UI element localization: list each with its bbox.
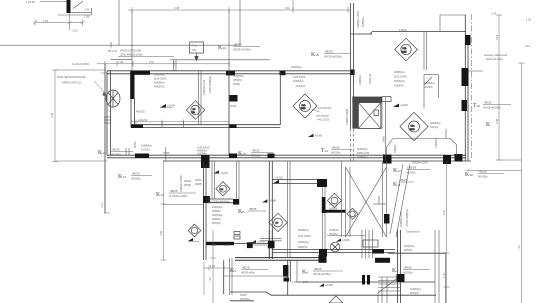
spot flag +0.60 below D3 [308, 133, 322, 137]
svg-text:4M1b: 4M1b [230, 104, 237, 108]
svg-text:(45/25+45b): (45/25+45b) [241, 271, 255, 275]
partition x=424 right block [424, 32, 439, 109]
svg-text:4M(8)4a): 4M(8)4a) [394, 79, 405, 83]
svg-text:W5(25): W5(25) [329, 232, 338, 236]
thick wall y=243 lower-left [206, 242, 234, 245]
column on stair wall [384, 214, 390, 224]
svg-text:(25b) 4M5/25 (25b): (25b) 4M5/25 (25b) [120, 53, 142, 57]
svg-text:+0.60: +0.60 [220, 171, 228, 175]
main top wall y=71-75 [107, 71, 355, 74]
door jamb x=183.5 [183, 121, 185, 128]
svg-text:2M(8)4a): 2M(8)4a) [404, 244, 415, 248]
grid diamond D6 with flag [188, 224, 201, 237]
svg-text:2M(8)4a 25/50: 2M(8)4a 25/50 [356, 11, 360, 28]
svg-text:4M(8)a: 4M(8)a [393, 144, 397, 153]
text rows bottom right block2 [410, 287, 421, 295]
svg-text:1.35 ##: 1.35 ## [26, 0, 35, 4]
svg-text:ENTLUEFTUNGSROHR: ENTLUEFTUNGSROHR [57, 75, 86, 79]
svg-text:45/25: 45/25 [234, 43, 242, 47]
svg-text:4.18: 4.18 [495, 34, 499, 40]
svg-text:1M(8)4a): 1M(8)4a) [357, 155, 368, 159]
wall extension line y=70 to left dim [55, 69, 106, 71]
vertical x=297 bottom [296, 260, 298, 282]
column right wall y=68-86 [462, 68, 469, 86]
tick line y=204.4 [164, 203, 205, 205]
svg-text:W5/25 (25/25)+B5: W5/25 (25/25)+B5 [120, 49, 142, 53]
svg-text:2M(8)4a AU3: 2M(8)4a AU3 [202, 79, 206, 95]
inset detail box border [0, 0, 240, 48]
top dimension line y=10 [128, 7, 350, 13]
inset detail: dimension line with arrows [33, 13, 85, 31]
shaft small rect top right [382, 97, 391, 102]
dim line x=163.5 lower-left [161, 161, 167, 260]
svg-text:QU5 25/50: QU5 25/50 [298, 234, 311, 238]
column y=250 x=323 [319, 249, 327, 257]
lintel text block above left wall [118, 49, 174, 57]
svg-text:2M(8)4a: 2M(8)4a [358, 75, 362, 85]
black bar on x=288 wall [283, 265, 288, 277]
svg-text:+0.60: +0.60 [257, 240, 265, 244]
svg-text:2.35: 2.35 [84, 8, 90, 12]
svg-text:4.10: 4.10 [525, 44, 531, 48]
svg-text:4M/32: 4M/32 [184, 179, 192, 183]
thick wall x=270.5 center [269, 161, 272, 259]
beam label K6 [302, 267, 343, 276]
beam label K5 [230, 266, 268, 275]
annotation Entlueftungs text with leader [57, 75, 108, 96]
svg-text:(45/25b): (45/25b) [478, 175, 488, 179]
svg-text:45/25: 45/25 [479, 170, 487, 174]
svg-text:1M(8)4a): 1M(8)4a) [424, 81, 435, 85]
svg-text:1M(8)4: 1M(8)4 [329, 207, 338, 211]
svg-text:45/25: 45/25 [332, 146, 340, 150]
extension line x=132 from dim to wall [131, 10, 133, 71]
beam label K13 [118, 172, 152, 181]
svg-text:+0.60: +0.60 [167, 104, 175, 108]
svg-text:(45/25b): (45/25b) [403, 271, 413, 275]
vertical x=289.5 upper of bottom block [288, 161, 291, 258]
door lines left of x=270 [247, 238, 282, 245]
wall y=282 bottom [297, 281, 435, 283]
svg-text:45/25: 45/25 [132, 172, 140, 176]
svg-text:2M(8)4a 25/50: 2M(8)4a 25/50 [179, 175, 183, 192]
beam label K8 [238, 207, 266, 215]
svg-text:4M(8)4a): 4M(8)4a) [293, 79, 304, 83]
column y155 x=385 [383, 155, 392, 164]
svg-text:Durchbruch: Durchbruch [319, 106, 333, 110]
svg-text:25/25: 25/25 [402, 52, 408, 54]
svg-text:2M 25/50 4M(8)4a: 2M 25/50 4M(8)4a [208, 199, 230, 203]
column on y=125 wall x=230 [230, 124, 237, 128]
window ticks on left wall [104, 117, 110, 123]
svg-text:+0.60: +0.60 [325, 283, 333, 287]
svg-text:25/50 4M(8)4a: 25/50 4M(8)4a [405, 209, 409, 226]
column at wall x=350 top [350, 70, 355, 76]
svg-text:2.38: 2.38 [84, 14, 90, 18]
column right wall y=100 [462, 100, 468, 111]
black column end of y=199 wall [233, 199, 239, 205]
room text block right block [394, 70, 407, 88]
flag under D6 [188, 238, 199, 242]
svg-text:2M(8)4a): 2M(8)4a) [154, 73, 165, 77]
jamb ticks above corridor wall [126, 147, 166, 161]
stair shaft inner square with cross [358, 103, 381, 129]
corridor wall y=155-161 [107, 155, 471, 161]
svg-text:2M(8)4a QU5: 2M(8)4a QU5 [412, 161, 428, 165]
interior wall x=229 down from top wall [228, 71, 230, 156]
vertical pair x=230 bottom [230, 258, 233, 295]
column y=250 x=378 [372, 249, 384, 254]
right dim line B x=521.5 [519, 63, 525, 303]
vertical wall x=288.5 bottom [288, 260, 291, 295]
svg-text:145/25: 145/25 [399, 28, 407, 32]
svg-text:4M(8)4a): 4M(8)4a) [430, 121, 441, 125]
svg-text:45/25: 45/25 [163, 151, 170, 155]
stair well verticals [362, 230, 373, 258]
column y155 x=270 [268, 154, 275, 159]
svg-text:7.10: 7.10 [100, 202, 104, 208]
svg-text:2.39: 2.39 [159, 230, 163, 236]
corridor wall y=138.5 right block [386, 129, 456, 156]
stair diagonal bottom [378, 276, 400, 293]
connector line y=160 right [499, 159, 522, 161]
column on x=204 wall [203, 196, 210, 203]
svg-text:4x41/32: 4x41/32 [138, 118, 148, 122]
room text mid block [291, 65, 306, 88]
wall y=243 thin part [234, 243, 270, 245]
svg-text:4M(8)4a): 4M(8)4a) [154, 81, 165, 85]
K label on right wall [486, 122, 491, 128]
stair flight diagonals right [390, 164, 410, 237]
wall y=253 right [388, 252, 446, 254]
room text block upper-left [154, 73, 167, 89]
partition pair x=174 [174, 60, 177, 71]
svg-text:W5(25): W5(25) [404, 248, 413, 252]
column right wall y=35-45 [465, 35, 471, 45]
dim line x=213 [210, 230, 216, 303]
column on x=270 wall [268, 242, 275, 249]
text rows below wall [212, 205, 223, 225]
beam label K10 far right [465, 170, 504, 179]
svg-text:QU5 25/50: QU5 25/50 [394, 75, 407, 79]
svg-text:Durchbruch: Durchbruch [406, 230, 420, 234]
stair shaft hatched left wall [352, 97, 358, 129]
vertical line x=341.5 stairs left [341, 161, 343, 237]
interior dim line y=63.8 upper-left block [97, 61, 230, 67]
svg-text:45/25: 45/25 [249, 207, 257, 211]
black corner block [247, 242, 253, 248]
circle symbol stairwell [347, 208, 358, 219]
svg-text:+0.60: +0.60 [269, 199, 277, 203]
room text block bottom-center [298, 228, 311, 249]
vertical wall x=445.5 bottom [445, 253, 447, 303]
corner column black bar vertical [130, 71, 134, 99]
svg-text:25/50 AU5: 25/50 AU5 [357, 151, 370, 155]
grid diamond D2 [400, 112, 428, 140]
grid diamond D4 [186, 101, 204, 119]
svg-text:25/25: 25/25 [301, 108, 307, 110]
svg-text:+0.60: +0.60 [315, 133, 323, 137]
svg-text:W5(25): W5(25) [212, 221, 221, 225]
svg-text:ARMOS WY5.23: ARMOS WY5.23 [62, 81, 82, 85]
spot flag +0.60 upper bottom-block [262, 199, 277, 203]
small bars x=366 bottom [362, 275, 370, 285]
column y155 x=447 [443, 155, 451, 164]
spot elevation flag +0.60 room1 [160, 104, 175, 108]
svg-text:1.36: 1.36 [210, 264, 216, 268]
interior dim line x=447 [444, 161, 450, 303]
svg-text:(45/25+45/25b): (45/25+45/25b) [483, 106, 501, 110]
svg-text:185/25: 185/25 [407, 166, 417, 170]
svg-text:1M(2)4: 1M(2)4 [430, 125, 439, 129]
dim line y=268 [204, 266, 229, 271]
svg-text:25/50 4M(8)4a: 25/50 4M(8)4a [208, 76, 212, 93]
svg-text:(45/25b): (45/25b) [131, 177, 141, 181]
interior line y=59.8 [111, 58, 271, 60]
svg-text:4M5/9b: 4M5/9b [212, 217, 221, 221]
column y155 x=232 [229, 154, 237, 159]
bottom exterior wall y=295 [230, 292, 436, 295]
column y155 x=137 [135, 154, 149, 159]
grid diamond D1 right block [395, 38, 418, 61]
svg-text:W5(25): W5(25) [424, 85, 433, 89]
svg-text:(45/25b): (45/25b) [240, 297, 250, 301]
interior wall y=199 lower-left [206, 199, 233, 203]
interior partition x=201.5 [199, 71, 202, 125]
right block setback line y=15 [440, 15, 466, 32]
column on top wall x=280 [280, 71, 286, 75]
vertical wall x=437 bottom [435, 230, 439, 303]
svg-text:25/50: 25/50 [195, 178, 202, 182]
svg-text:1M5/25 4M(8): 1M5/25 4M(8) [345, 109, 349, 125]
svg-text:45/25: 45/25 [314, 267, 322, 271]
right exterior wall x=466 [465, 15, 468, 161]
svg-text:(45/25+45/25b): (45/25+45/25b) [233, 48, 251, 52]
svg-text:4M1/32: 4M1/32 [136, 110, 145, 114]
svg-text:4M(8): 4M(8) [233, 82, 240, 86]
column on y=125 wall left [131, 124, 143, 128]
thick vertical wall x=271 upper of bottom block [269, 230, 272, 258]
svg-text:4.41: 4.41 [442, 209, 446, 215]
svg-text:Pos1: Pos1 [192, 44, 198, 48]
svg-text:7.10: 7.10 [208, 276, 212, 282]
lower strip texts of upper-left block [141, 144, 152, 152]
svg-text:+0.60: +0.60 [400, 103, 408, 107]
stair landing line [327, 235, 365, 237]
spot elevation flag +0.60 at shaft [393, 103, 408, 107]
svg-text:4M(8)7b): 4M(8)7b) [154, 85, 165, 89]
small column squares pair x=237 [234, 232, 240, 240]
grid diamond D8 [269, 213, 287, 231]
column y155 x=204 [201, 155, 210, 168]
svg-text:45/25: 45/25 [242, 266, 250, 270]
wall pair x=323 center-bottom [323, 187, 326, 254]
svg-text:W5(9): W5(9) [184, 183, 191, 187]
spot flag +0.60 center [274, 176, 283, 184]
svg-text:(45/25b): (45/25b) [406, 171, 416, 175]
second bottom line y=300.8 [230, 300, 254, 302]
svg-text:2.61: 2.61 [149, 60, 155, 64]
beam label K16 [311, 50, 350, 59]
inset detail: wall column (black bar) [67, 0, 71, 13]
black bar y=211 [324, 210, 346, 213]
dim texts bottom center [292, 280, 309, 284]
svg-text:45/25: 45/25 [133, 141, 137, 148]
spot flag +0.60 stairs bottom [336, 238, 350, 242]
svg-text:45/25: 45/25 [325, 50, 333, 54]
svg-text:1M(8)4a): 1M(8)4a) [212, 205, 223, 209]
svg-text:45/25: 45/25 [252, 149, 260, 153]
svg-text:aufsteig. Mauerwerk: aufsteig. Mauerwerk [484, 53, 508, 57]
svg-text:5.38: 5.38 [50, 112, 54, 118]
beam label K7 [392, 266, 430, 275]
svg-text:45/25: 45/25 [240, 293, 247, 297]
black fill on x=323 wall [322, 197, 326, 213]
stair rungs bottom [378, 277, 400, 303]
room text block right block 2 [424, 81, 435, 89]
thick wall left x=132 lower part [131, 99, 135, 128]
svg-text:Wand ab Erdg.: Wand ab Erdg. [486, 57, 503, 61]
spot elevation flag +0.60 lower-left [214, 170, 228, 175]
room left wall x=224 bottom [223, 260, 225, 294]
leader tick [101, 72, 107, 74]
beam label K15b mid [238, 149, 273, 158]
svg-text:(45/25b): (45/25b) [331, 151, 341, 155]
outer dim line x=55 [52, 70, 107, 161]
column on x=229 wall [230, 95, 238, 102]
svg-text:45/25: 45/25 [112, 148, 120, 152]
svg-text:7.10: 7.10 [517, 244, 521, 250]
beam label K12b right [393, 166, 430, 175]
wall tick bottom x=107 [104, 212, 110, 214]
label box with leader arrow [190, 42, 204, 61]
stair shaft hatched top wall [352, 97, 382, 103]
shaft symbol [374, 110, 379, 116]
beam label T12 [321, 146, 352, 155]
svg-text:45/25: 45/25 [404, 266, 412, 270]
svg-text:1M5b: 1M5b [382, 135, 386, 142]
grid diamond D5 [216, 182, 230, 196]
svg-text:1M(8)4a: 1M(8)4a [434, 138, 438, 148]
svg-text:+0.60: +0.60 [275, 176, 283, 180]
wall y=250 center [272, 249, 395, 252]
door jamb x=162 [161, 121, 163, 128]
beam label K11 [393, 178, 414, 188]
svg-text:AU3/25: AU3/25 [141, 148, 150, 152]
svg-text:#R 4.21: #R 4.21 [108, 49, 118, 53]
column x=399 y=278 [397, 274, 405, 282]
svg-text:(45/25+45/25b): (45/25+45/25b) [313, 272, 331, 276]
svg-text:A=0.17/25: A=0.17/25 [317, 118, 329, 122]
north circle symbol [330, 242, 340, 252]
dim line y=170.5 right [466, 170, 522, 172]
grid diamond D3 with leader [293, 94, 317, 118]
svg-text:25/25: 25/25 [410, 129, 416, 131]
svg-text:W5(25): W5(25) [233, 78, 242, 82]
svg-text:2M(8)4a): 2M(8)4a) [357, 147, 368, 151]
svg-text:45/25: 45/25 [484, 101, 492, 105]
vertical thick bar x=285.5 y=270 (door) [268, 241, 275, 248]
extension line x=293 [292, 0, 294, 10]
svg-text:4.10: 4.10 [285, 6, 291, 10]
svg-text:1M(8)4a): 1M(8)4a) [410, 287, 421, 291]
wall y=258 thick gray bottom-center [235, 258, 326, 261]
stair up arrow [373, 196, 386, 204]
dark tick x=286 y=279 [284, 278, 290, 282]
svg-text:-1.25: -1.25 [72, 29, 78, 33]
rotated texts near x=353 wall mid [358, 73, 372, 85]
beam label K12 left [156, 189, 196, 198]
texts near stairs right [404, 244, 415, 252]
stair platform rect [363, 240, 378, 247]
vertical wall pair x=399 bottom [398, 230, 401, 303]
svg-text:4M(8)4a: 4M(8)4a [361, 17, 365, 27]
svg-text:+0.60: +0.60 [342, 238, 350, 242]
svg-text:1.30: 1.30 [526, 18, 532, 22]
svg-text:1M(8)4a): 1M(8)4a) [233, 74, 244, 78]
column on y=181 wall [317, 179, 327, 187]
svg-text:4M(8): 4M(8) [195, 182, 202, 186]
top wall of right block y=32 [351, 32, 466, 35]
right dim line A x=499 [496, 15, 502, 160]
left exterior wall x=107 double [105, 64, 111, 213]
svg-text:1.30: 1.30 [118, 60, 124, 64]
svg-text:W5(25): W5(25) [329, 203, 338, 207]
svg-text:4M(8)4a): 4M(8)4a) [298, 240, 309, 244]
spot flag +0.60 bottom [319, 283, 333, 287]
small text above corridor wall [163, 146, 210, 156]
ventilation circle symbol [106, 90, 120, 107]
svg-text:1.35: 1.35 [43, 19, 49, 23]
svg-text:QU5 25/50: QU5 25/50 [154, 77, 167, 81]
column y155 x=458 [455, 154, 463, 162]
svg-text:2.48: 2.48 [495, 118, 499, 124]
label box text [192, 44, 198, 53]
svg-text:2M(8)4a: 2M(8)4a [329, 228, 339, 232]
svg-text:13/2: 13/2 [192, 48, 198, 52]
texts under shaft [357, 147, 370, 159]
dim line above y=121.8 [131, 120, 229, 125]
thick bar y=260 stairs [375, 258, 390, 263]
beam label K15 left [98, 148, 133, 157]
annotation aufsteigendes Mauerwerk [484, 53, 508, 61]
spot flag +0.60 at x=255 [251, 240, 265, 244]
wall between blocks x=350/353 [351, 3, 354, 129]
stair flight long X [346, 161, 387, 237]
svg-text:4M(2)/4: 4M(2)/4 [296, 84, 305, 88]
svg-text:2M(8)4a AU3: 2M(8)4a AU3 [399, 211, 403, 227]
wall y=181 center-left [272, 180, 327, 184]
black column square x=322 [319, 255, 327, 263]
svg-text:4M(8)7b: 4M(8)7b [298, 245, 308, 249]
leader text Durchbruch D3 [312, 106, 333, 122]
dim line x=204 short [203, 262, 205, 295]
grid diamond D9 [327, 193, 341, 207]
svg-text:3.38: 3.38 [174, 6, 180, 10]
svg-text:1.36: 1.36 [211, 243, 217, 247]
svg-text:AU5 25/50: AU5 25/50 [293, 75, 306, 79]
svg-text:1M(8)4a): 1M(8)4a) [212, 213, 223, 217]
svg-text:1M(8)7b: 1M(8)7b [394, 84, 404, 88]
svg-text:1.35: 1.35 [491, 12, 497, 16]
svg-text:45/25: 45/25 [170, 189, 178, 193]
interior wall x=280.3 [279, 72, 281, 126]
svg-text:W5(25): W5(25) [410, 291, 419, 295]
column on top wall x=227 [226, 71, 235, 76]
beam label K14 [218, 43, 260, 52]
text rows bottom right block [240, 293, 250, 301]
svg-text:2M(8)4a): 2M(8)4a) [394, 70, 405, 74]
